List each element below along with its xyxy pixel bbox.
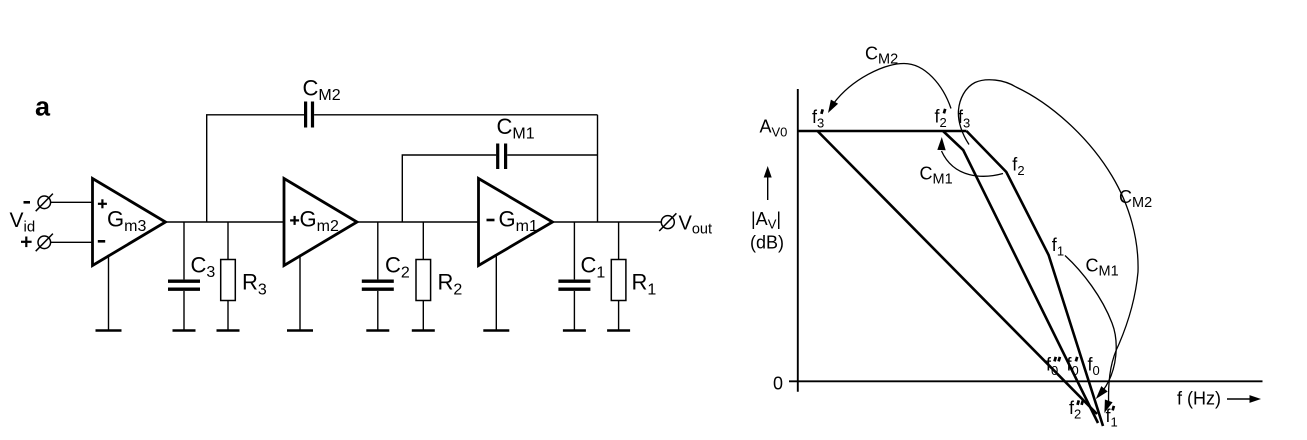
curve uncompensated rolloff f3-f2-f1 — [967, 131, 1104, 426]
wire output node Vout segment — [550, 221, 661, 223]
ground C1 — [563, 329, 586, 331]
svg-text:C2: C2 — [385, 253, 410, 282]
svg-text:CM1: CM1 — [497, 114, 535, 142]
capacitor CM1 — [497, 114, 535, 169]
wire CM2 right segment to output node — [314, 114, 597, 116]
svg-text:Gm3: Gm3 — [107, 207, 146, 236]
ground R1 — [607, 329, 630, 331]
svg-text:a: a — [35, 92, 51, 122]
curve single-Miller rolloff from f2' — [943, 131, 1098, 423]
arrow CM1 pole shift top (f2 to f2') — [937, 137, 1003, 176]
svg-text:(dB): (dB) — [750, 233, 784, 253]
svg-text:R3: R3 — [242, 270, 267, 299]
input terminal non-inverting — [36, 234, 53, 252]
label minus at inverting input — [24, 201, 31, 204]
wire CM2 left branch — [207, 115, 304, 222]
curve flat gain Av0 — [798, 130, 967, 133]
axis f (x-axis) — [789, 380, 1263, 382]
output terminal Vout — [659, 213, 676, 231]
ground Gm2 — [287, 329, 313, 331]
wire output feedback vertical — [597, 115, 599, 222]
svg-text:AV0: AV0 — [760, 117, 788, 140]
wire CM1 right segment to output node — [507, 154, 597, 156]
ground R2 — [412, 329, 435, 331]
wire Gm2 ground branch — [299, 255, 301, 331]
ground C3 — [173, 329, 196, 331]
svg-text:f (Hz): f (Hz) — [1177, 389, 1221, 409]
axis |Av| (y-axis) — [797, 89, 799, 392]
wire Gm1 ground branch — [495, 255, 497, 331]
svg-text:CM2: CM2 — [303, 76, 341, 104]
svg-text:0: 0 — [773, 374, 783, 394]
wire inverting input to Gm3 — [51, 201, 93, 203]
y-axis arrow — [764, 166, 772, 200]
svg-text:CM1: CM1 — [920, 164, 953, 188]
capacitor C1 — [558, 222, 605, 331]
svg-text:CM2: CM2 — [1119, 187, 1152, 211]
capacitor CM2 — [303, 76, 341, 128]
svg-text:Gm2: Gm2 — [300, 207, 339, 236]
capacitor C3 — [168, 222, 215, 331]
svg-text:f1: f1 — [1052, 235, 1064, 259]
wire non-inverting input to Gm3 — [51, 241, 93, 243]
svg-text:R1: R1 — [632, 270, 657, 299]
svg-text:f0: f0 — [1088, 355, 1100, 379]
resistor R3 — [221, 222, 267, 331]
input terminal inverting — [36, 194, 53, 212]
curve nested-Miller rolloff from f3' — [818, 131, 1098, 414]
svg-text:Vid: Vid — [10, 209, 36, 236]
ground Gm1 — [483, 329, 509, 331]
svg-text:C3: C3 — [191, 253, 216, 282]
wire node V3 main segment — [163, 221, 284, 223]
svg-text:Vout: Vout — [679, 213, 713, 238]
wire CM1 left branch — [402, 155, 496, 222]
capacitor C2 — [362, 222, 410, 331]
svg-text:f2: f2 — [1012, 155, 1024, 179]
wire Gm3 ground branch — [108, 255, 110, 331]
svg-text:CM2: CM2 — [865, 44, 898, 68]
svg-text:C1: C1 — [581, 253, 606, 282]
resistor R2 — [416, 222, 462, 331]
svg-text:R2: R2 — [438, 270, 463, 299]
ground R3 — [217, 329, 240, 331]
op-amp U1 Gm3 — [93, 179, 166, 266]
ground C2 — [366, 329, 389, 331]
ground Gm3 — [96, 329, 122, 331]
arrow CM2 pole shift top (f3 to f3') — [828, 64, 951, 114]
svg-text:|AV|: |AV| — [751, 209, 781, 232]
arrow CM1 pole shift right (f1 to f1') — [1065, 256, 1116, 400]
label plus at non-inverting input — [21, 237, 32, 248]
wire node V2 main segment — [355, 221, 479, 223]
resistor R1 — [611, 222, 656, 331]
svg-text:CM1: CM1 — [1086, 256, 1119, 280]
arrow CM2 pole shift right (f2' to f2''/f1') — [958, 80, 1138, 413]
op-amp U3 Gm1 — [479, 179, 553, 266]
op-amp U2 Gm2 — [284, 179, 357, 266]
